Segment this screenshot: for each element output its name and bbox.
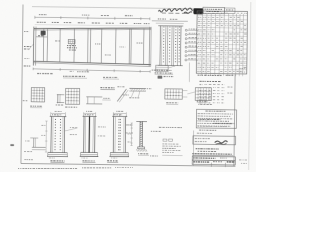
leader between E and F [187, 92, 195, 94]
section label underlined [100, 87, 114, 89]
web stiffener [89, 29, 91, 63]
dimension text above girder [39, 14, 47, 16]
strip detail dim line [130, 123, 132, 145]
erection note lines [162, 143, 178, 145]
web stiffener [130, 29, 132, 64]
approval box [193, 136, 236, 145]
small dark box in notes [158, 76, 163, 79]
column base [48, 151, 67, 153]
detail C label [65, 106, 77, 108]
bearing bar hatch [130, 88, 145, 91]
end section top cap [158, 25, 183, 27]
dimension tick [113, 69, 115, 72]
column top dimension [84, 112, 96, 114]
bearing bar detail [129, 87, 145, 89]
drawing title line 1 [196, 148, 219, 150]
drawing title line 3 underlined [192, 153, 231, 156]
general notes text lines [198, 113, 233, 115]
sub-detail leaders [168, 66, 175, 68]
gusset plate detail C [66, 88, 80, 104]
column cap plate [50, 115, 67, 117]
leader text between columns [70, 126, 78, 128]
strip detail label [138, 153, 148, 155]
base corner detail [32, 146, 46, 148]
dimension tick [86, 69, 88, 72]
text under detail F [198, 103, 211, 105]
end section detail verticals [159, 26, 162, 66]
page caption below drawing [18, 168, 78, 170]
column rivets [55, 119, 61, 149]
dimension tick [149, 70, 151, 73]
column base anchor marks [111, 157, 117, 159]
dimension tick [34, 16, 36, 19]
rivet schedule rows [199, 84, 202, 86]
strip column hatch [140, 123, 142, 146]
girder bottom flange [33, 61, 151, 64]
girder top flange [34, 26, 152, 30]
title block upper row [192, 156, 235, 160]
diagonal brace detail [117, 89, 126, 102]
girder left end post [32, 27, 35, 66]
gusset plate detail A [31, 87, 44, 101]
detail D leader [102, 99, 110, 101]
title block left edge [192, 130, 194, 165]
web stiffener [115, 29, 117, 64]
dimension tick [32, 68, 34, 71]
sheet border top edge [32, 7, 196, 9]
detail E extension [182, 89, 187, 91]
column rivets [119, 119, 121, 149]
general notes box [196, 109, 236, 128]
title block lower row [192, 160, 235, 165]
girder web small notes [55, 40, 60, 42]
sheet border left edge [21, 5, 23, 164]
end section bolt rows [163, 27, 179, 62]
dimension tick [149, 17, 151, 20]
end section detail dimension lines [152, 20, 188, 22]
rivet schedule header [200, 80, 221, 82]
column label [50, 160, 64, 162]
dark stamp blob [193, 8, 203, 14]
BOM table frame [196, 11, 247, 74]
notes dark emphasis row [198, 118, 220, 120]
bolt plan detail F [195, 88, 211, 101]
column label [82, 160, 94, 162]
column base [81, 151, 98, 153]
weld symbol near left end [41, 31, 46, 35]
web stiffener [87, 29, 89, 63]
column cap plate [112, 115, 127, 117]
dimension tick [139, 70, 141, 73]
BOM total line [198, 74, 222, 76]
dimension tick [140, 17, 142, 20]
sheet border right edge [234, 74, 235, 166]
column top dimension [113, 112, 126, 114]
column shaft [112, 116, 114, 152]
BOM table cell entries [198, 12, 202, 14]
girder second dimension row [37, 21, 46, 23]
marks right of border [239, 67, 246, 69]
web stiffener [143, 29, 145, 65]
strip column detail web [139, 121, 141, 146]
web stiffener [128, 29, 130, 64]
detail F label [197, 100, 208, 102]
material list small text [159, 126, 182, 128]
strip base plate [138, 147, 145, 149]
leader from callouts to details [188, 62, 190, 81]
notes header [205, 110, 225, 112]
end detail notes [152, 69, 172, 71]
bolt callout list [185, 29, 187, 31]
dimension tick [114, 17, 116, 20]
column top dimension [51, 112, 66, 114]
column base [110, 151, 128, 153]
dim line left of column1 [45, 121, 47, 152]
channel profile detail D [86, 96, 102, 98]
scan noise overlay [0, 0, 256, 172]
paper right edge [249, 2, 251, 170]
notes last row [197, 125, 226, 127]
left end leader [28, 44, 33, 50]
column annotations [52, 114, 62, 116]
dimension tick [87, 17, 89, 20]
text rows below notes [199, 129, 216, 131]
scale note [150, 155, 158, 157]
labels under girder [37, 72, 52, 74]
left end web line [36, 36, 48, 38]
BOM table columns [201, 13, 204, 75]
girder right end [148, 27, 151, 67]
splice leader [70, 44, 72, 49]
base corner marks [25, 140, 29, 142]
BOM table header box [203, 7, 225, 13]
end section bottom cap [158, 64, 183, 66]
column base anchor marks [82, 157, 88, 159]
web stiffener [73, 29, 75, 63]
rivet schedule right marks [227, 86, 232, 88]
drawing number cell [227, 161, 235, 163]
web stiffener [100, 29, 102, 64]
column base anchor marks [49, 157, 55, 159]
bolt plan detail E [165, 89, 183, 99]
detail A label [30, 105, 42, 107]
strip column detail flange [136, 120, 147, 122]
end detail lower sub-detail [156, 65, 169, 71]
stamp second line [184, 12, 192, 14]
handwritten stamp text [158, 8, 193, 13]
web stiffener [46, 29, 48, 62]
web stiffener [59, 29, 61, 62]
angle section detail B [57, 94, 59, 103]
tiny detail marks above text block [163, 139, 167, 141]
web stiffener [42, 29, 44, 62]
bearing bar leaders [131, 91, 140, 97]
BOM table rows [197, 14, 247, 17]
column label [107, 160, 117, 162]
sheet border bottom edge [21, 163, 235, 166]
girder elevation top dimension line [35, 17, 150, 19]
drawing title line 2 [198, 150, 216, 152]
BOM table header right box [225, 8, 235, 14]
small text underline [162, 154, 182, 156]
left margin mark [10, 144, 14, 146]
girder bottom dimension line [33, 69, 150, 72]
signature scribble [215, 141, 228, 143]
column shaft [83, 116, 85, 152]
corner detail label [24, 159, 32, 161]
detail E label [166, 102, 178, 104]
column shaft [50, 116, 52, 152]
column cap plate [83, 115, 97, 117]
dimension tick [59, 68, 61, 71]
left margin dimension notes [24, 30, 29, 32]
ground hatch under strip base [136, 149, 147, 151]
dimension tick [60, 16, 62, 19]
girder mid-span splice detail [68, 39, 75, 43]
